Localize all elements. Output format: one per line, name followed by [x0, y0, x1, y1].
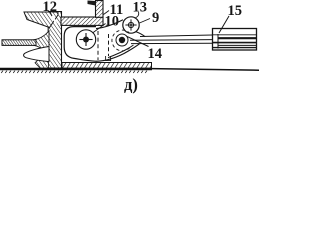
svg-text:13: 13 — [133, 0, 148, 16]
svg-text:д): д) — [124, 75, 138, 94]
pin 13 — [112, 30, 130, 51]
pin 10 center mark — [79, 33, 92, 46]
hidden slot dashed line left — [97, 31, 99, 60]
svg-text:12: 12 — [43, 0, 58, 15]
leader 14 — [127, 37, 149, 47]
lever top edge — [96, 20, 123, 29]
flange/rim seam — [51, 13, 58, 28]
bracket horizontal bar — [61, 17, 103, 25]
svg-text:15: 15 — [228, 3, 243, 19]
lever right edge arc — [136, 32, 146, 37]
ground line (right thin part) — [152, 69, 259, 71]
rod bottom line — [131, 42, 213, 44]
ground hatch ticks — [1, 71, 147, 73]
leader 15 — [219, 16, 229, 33]
leader 13 — [135, 12, 139, 18]
slot foot — [106, 56, 111, 61]
leader 10 — [93, 24, 106, 34]
pulley shaft — [2, 40, 36, 46]
svg-text:14: 14 — [148, 46, 163, 62]
housing plate outline — [64, 27, 139, 62]
leader 11 — [104, 11, 110, 15]
handle block 15 — [213, 29, 257, 51]
pulley top flange — [24, 12, 58, 28]
roller 9 center mark — [125, 19, 136, 30]
rod top line — [140, 35, 213, 37]
pulley web flare — [33, 31, 49, 54]
pulley rim (hatched) — [48, 12, 62, 69]
roller 9 circle — [123, 17, 139, 33]
bracket stem top flare — [88, 1, 96, 6]
svg-text:10: 10 — [105, 14, 120, 30]
hidden slot dashed line right — [108, 34, 110, 56]
svg-text:9: 9 — [152, 10, 159, 26]
lever lower lobe arc — [108, 45, 134, 58]
leader 12 — [50, 11, 53, 16]
pin 10 roller circle — [76, 30, 95, 49]
leader 9 — [140, 19, 151, 24]
pulley foot wedge — [35, 50, 49, 68]
pulley lower flange (white tongue) — [24, 47, 49, 62]
foundation hatched strip — [62, 63, 152, 69]
ground line (left thick part) — [0, 68, 152, 70]
bracket vertical stem — [96, 1, 104, 18]
rod middle line — [130, 39, 213, 42]
